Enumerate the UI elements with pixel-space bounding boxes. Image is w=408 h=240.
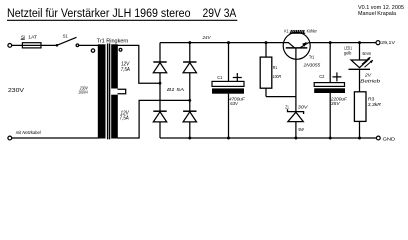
svg-text:35V: 35V (331, 101, 341, 106)
wire secondary winding series junction (118, 89, 126, 94)
svg-text:230V: 230V (8, 88, 24, 94)
svg-text:Tr1: Tr1 (309, 54, 315, 59)
svg-text:GND: GND (383, 137, 396, 142)
svg-text:7,5A: 7,5A (120, 116, 130, 122)
bridge rectifier B1 5A (153, 43, 196, 138)
svg-text:R3: R3 (368, 96, 375, 101)
svg-text:gelb: gelb (344, 51, 352, 56)
svg-text:Kühler: Kühler (307, 29, 318, 34)
junction dot LED branch (358, 41, 361, 44)
diode D4 (bottom right) (183, 110, 196, 112)
svg-text:29V 3A: 29V 3A (203, 6, 238, 20)
svg-text:Betrieb: Betrieb (360, 78, 380, 83)
svg-text:R1: R1 (273, 65, 278, 70)
junction dot bridge right top (188, 41, 191, 44)
svg-text:3,3kR: 3,3kR (368, 102, 382, 107)
junction dot C1 top (227, 41, 230, 44)
core line 2 (109, 44, 111, 140)
junction dot zener bottom (294, 137, 297, 140)
capacitor C1 (212, 43, 246, 138)
resistor R1 100R (260, 43, 281, 97)
junction dot C1 bottom (227, 137, 230, 140)
svg-text:Si: Si (21, 34, 25, 39)
svg-text:C1: C1 (217, 75, 222, 80)
diode D1 (top left) (159, 43, 161, 62)
svg-text:2V: 2V (364, 72, 372, 77)
primary winding bar (98, 44, 106, 138)
transistor Tr1 2N3055 (283, 32, 320, 96)
wire secondary top to bridge AC1 (118, 45, 161, 83)
base lead down (295, 48, 297, 97)
transformer Tr1 Ringkern (78, 38, 130, 139)
svg-text:1AT: 1AT (28, 35, 37, 40)
wire emitter to output rail (309, 42, 376, 44)
junction dot C2 top (329, 41, 332, 44)
bottom rail DC- (160, 137, 376, 139)
junction dot R1 top (265, 41, 268, 44)
terminal +29,1V (376, 41, 380, 45)
svg-text:K1: K1 (284, 28, 288, 33)
svg-text:Tr1 Ringkern: Tr1 Ringkern (97, 38, 129, 44)
heatsink K1 Kühler (284, 28, 317, 33)
junction AC2 on right column (188, 99, 191, 102)
primary polarity dot (91, 49, 94, 52)
junction dot R3 bottom (358, 137, 361, 140)
junction dot bridge right bottom (188, 137, 191, 140)
emitter lead with arrow (300, 43, 309, 48)
secondary winding 1 bar (111, 44, 118, 88)
switch S1 (56, 34, 79, 47)
svg-text:160VA: 160VA (78, 90, 88, 95)
zener diode Z1 30V 5W (285, 97, 308, 138)
svg-text:2N3055: 2N3055 (303, 62, 321, 67)
credit note (358, 5, 404, 17)
svg-text:5mm: 5mm (362, 51, 371, 56)
wire secondary bottom to bridge AC2 (118, 100, 190, 138)
wire N to primary bottom (12, 137, 99, 139)
svg-text:5W: 5W (298, 127, 304, 132)
wire R1 to base node (266, 96, 296, 98)
diode D2 (top right) (189, 43, 191, 62)
svg-text:30V: 30V (298, 104, 309, 109)
svg-text:24V: 24V (202, 35, 212, 40)
secondary winding 2 bar (111, 95, 118, 139)
terminal GND (376, 136, 380, 140)
svg-text:29,1V: 29,1V (381, 40, 396, 45)
junction dot C2 bottom (329, 137, 332, 140)
svg-text:63V: 63V (230, 101, 238, 106)
fuse Si 1AT (12, 34, 56, 48)
wire switch to transformer primary (79, 44, 99, 46)
svg-text:Z1: Z1 (285, 104, 289, 109)
junction AC1 on left column (159, 82, 162, 85)
svg-text:mit Netzkabel: mit Netzkabel (16, 130, 42, 135)
svg-text:Manuel Krapala: Manuel Krapala (358, 11, 396, 17)
LED LED1 gelb 5mm (344, 43, 381, 92)
terminal N (mains neutral) (8, 136, 12, 140)
svg-text:Netzteil für Verstärker JLH 19: Netzteil für Verstärker JLH 1969 stereo (7, 6, 191, 20)
terminal L (mains live) (8, 44, 12, 48)
title text (7, 6, 237, 20)
diode D3 (bottom left) (153, 110, 166, 112)
collector lead (283, 42, 288, 44)
core line 1 (107, 44, 109, 140)
resistor R3 3,3kR (354, 92, 381, 138)
led arrows (362, 57, 370, 64)
svg-text:S1: S1 (63, 34, 68, 40)
secondary polarity dot (119, 48, 122, 51)
svg-text:100R: 100R (273, 74, 282, 79)
svg-text:B1 5A: B1 5A (167, 87, 184, 92)
wire L through fuse to switch (12, 44, 56, 46)
svg-text:7,5A: 7,5A (121, 67, 131, 73)
base bar (286, 47, 308, 49)
svg-text:C2: C2 (319, 74, 325, 79)
top rail DC+ (160, 42, 285, 44)
capacitor C2 (314, 43, 348, 138)
